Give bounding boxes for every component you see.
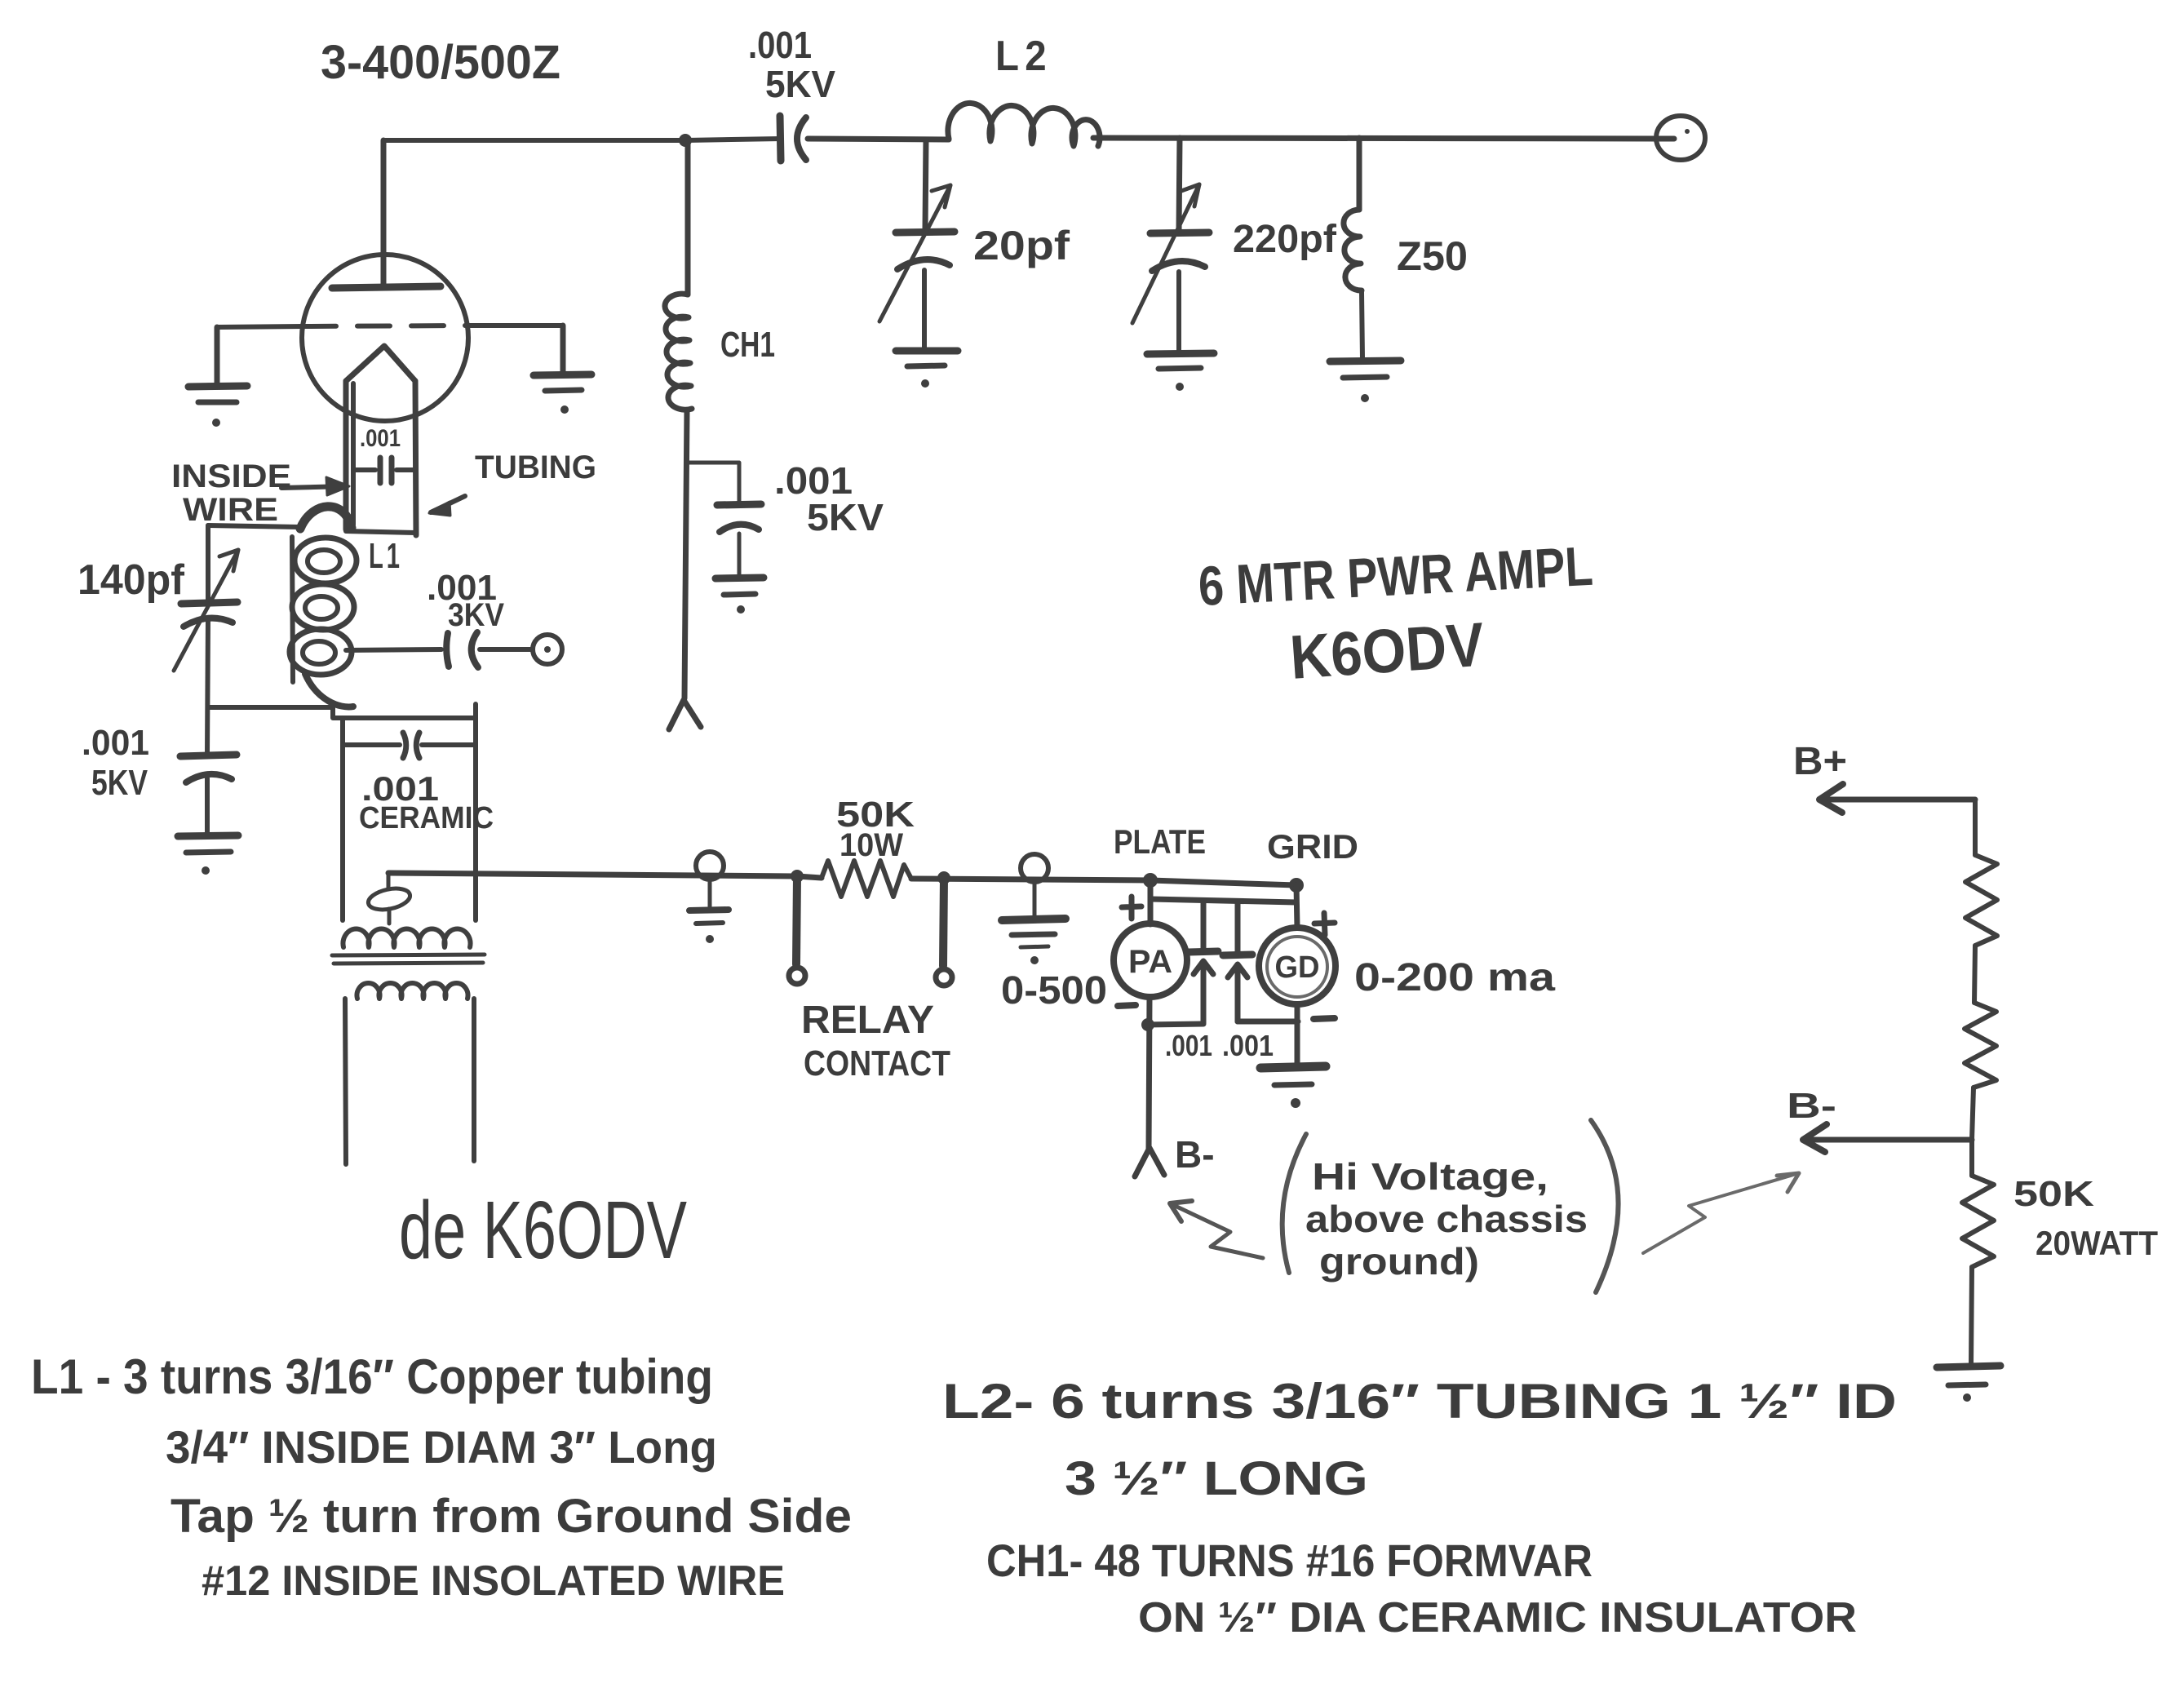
svg-text:de K6ODV: de K6ODV: [399, 1185, 687, 1276]
ceramic feedthrough box right wall: [473, 704, 478, 920]
wire L1 tap out: [346, 649, 441, 650]
wire bleeder mid1: [1974, 946, 1975, 1003]
svg-text:Tap ½ turn from Ground Side: Tap ½ turn from Ground Side: [171, 1490, 852, 1543]
capacitor .001 5KV (CH1 bypass): [717, 504, 761, 505]
cathode tubing outer walls: [343, 381, 349, 529]
wire bleeder top: [1973, 800, 1978, 855]
wire cap to L2: [808, 139, 949, 140]
svg-text:.001: .001: [1165, 1029, 1212, 1062]
wire B+ arrow: [1819, 797, 1975, 803]
wire bleeder mid2: [1972, 1088, 1974, 1140]
svg-text:CH1- 48 TURNS #16 FORMVAR: CH1- 48 TURNS #16 FORMVAR: [986, 1535, 1593, 1586]
tube cathode V: [346, 346, 415, 381]
arrow zigzag to B- fork: [1170, 1203, 1263, 1258]
arrow tubing label: [431, 496, 465, 512]
inductor L1 loop2: [292, 584, 354, 630]
wire primary lead right: [472, 999, 476, 1161]
choke CH1: [665, 294, 692, 410]
svg-text:GD: GD: [1275, 950, 1320, 985]
wire 220pf drop: [1179, 138, 1180, 231]
paren close (hi voltage note): [1591, 1120, 1619, 1292]
wire hook into L1 top: [300, 507, 352, 529]
relay contact left: [791, 870, 804, 883]
wire B- arrow: [1803, 1137, 1972, 1143]
tube grid dashed line: [217, 326, 303, 327]
ground GD: [1260, 1066, 1326, 1068]
wire Z50 drop: [1357, 138, 1362, 210]
node PLATE junction: [1143, 873, 1158, 888]
wire CH1 down to connector: [684, 410, 687, 698]
wire bleeder bottom: [1971, 1267, 1972, 1365]
svg-text:140pf: 140pf: [78, 556, 185, 604]
svg-text:GRID: GRID: [1267, 827, 1358, 866]
capacitor .001 (PA bypass): [1201, 901, 1207, 950]
resistor bleeder R1: [1965, 855, 1997, 946]
resistor 50K 20WATT: [1962, 1176, 1994, 1267]
wire plate lead: [381, 140, 387, 287]
transformer primary winding: [357, 983, 468, 999]
transformer secondary winding: [343, 929, 471, 947]
capacitor .001 (GD bypass): [1235, 902, 1241, 954]
ground feedthrough 2: [1002, 919, 1065, 920]
wire primary lead left: [345, 999, 346, 1164]
wire meter bypass top rail: [1151, 899, 1296, 902]
svg-text:L1 - 3 turns 3/16″ Copper tubi: L1 - 3 turns 3/16″ Copper tubing: [31, 1349, 713, 1404]
tube plate bar: [332, 286, 441, 288]
node GRID junction: [1289, 878, 1304, 893]
ground 140pf branch: [178, 835, 238, 836]
wire tap horizontal: [208, 525, 300, 527]
svg-text:K6ODV: K6ODV: [1288, 610, 1487, 693]
wire grid right down: [560, 326, 566, 374]
capacitor .001 inside tubing: [356, 467, 375, 472]
ground bleeder: [1937, 1366, 2000, 1367]
svg-text:.001: .001: [748, 24, 812, 66]
svg-text:CONTACT: CONTACT: [804, 1043, 950, 1083]
svg-text:.001: .001: [82, 723, 149, 763]
wire plate top horizontal: [383, 139, 781, 140]
node junction at CH1 top: [679, 134, 692, 147]
svg-text:B-: B-: [1787, 1086, 1836, 1126]
svg-text:L2: L2: [995, 33, 1052, 80]
svg-text:10W: 10W: [839, 827, 903, 863]
svg-text:0-500: 0-500: [1001, 969, 1107, 1012]
ground right of tube: [534, 374, 591, 375]
cathode inside wire: [351, 383, 356, 525]
ceramic feedthrough box left wall: [340, 718, 345, 920]
svg-text:220pf: 220pf: [1233, 218, 1337, 261]
arrow 20pf: [879, 185, 950, 321]
svg-text:RELAY: RELAY: [801, 999, 934, 1042]
svg-text:TUBING: TUBING: [475, 450, 596, 485]
ground feedthrough 1: [689, 910, 729, 910]
svg-text:3KV: 3KV: [448, 597, 504, 633]
arrow zigzag to bleeder B-: [1643, 1173, 1799, 1253]
arrow 140pf: [174, 550, 238, 671]
svg-text:5KV: 5KV: [91, 763, 148, 803]
capacitor 20pf variable: [896, 232, 955, 233]
feedthrough insulator 2: [1021, 854, 1048, 882]
svg-text:3-400/500Z: 3-400/500Z: [321, 36, 560, 89]
svg-text:50K: 50K: [2013, 1174, 2094, 1214]
relay contact right: [937, 871, 950, 884]
polarity marks PA: [1122, 897, 1141, 919]
arrow inside-wire label: [281, 486, 347, 488]
wire L1 bottom curve: [305, 674, 353, 707]
svg-text:.001: .001: [1222, 1029, 1274, 1062]
polarity marks GD: [1314, 913, 1335, 935]
tube V1 3-400/500Z envelope: [302, 255, 468, 421]
wire lower horizontal to ceramic box: [208, 707, 476, 718]
svg-text:L2- 6 turns 3/16″ TUBING 1 ½″: L2- 6 turns 3/16″ TUBING 1 ½″ ID: [942, 1374, 1897, 1429]
ground CH1 bypass: [715, 578, 764, 578]
svg-text:ON ½″ DIA CERAMIC INSULATOR: ON ½″ DIA CERAMIC INSULATOR: [1138, 1594, 1857, 1641]
ground Z50: [1330, 361, 1401, 361]
svg-text:20pf: 20pf: [973, 223, 1070, 268]
svg-text:L1: L1: [369, 536, 403, 576]
wire grid meter lead: [1296, 885, 1297, 928]
svg-text:Z50: Z50: [1397, 233, 1468, 279]
svg-text:#12 INSIDE INSOLATED WIRE: #12 INSIDE INSOLATED WIRE: [202, 1557, 785, 1605]
ground 20pf: [896, 348, 958, 355]
wire relay main horizontal: [388, 873, 1296, 885]
wire jog to bypass cap: [688, 463, 739, 502]
svg-text:ground): ground): [1319, 1240, 1479, 1283]
svg-text:WIRE: WIRE: [183, 492, 278, 528]
wire L2 to output: [1093, 138, 1674, 139]
paren open (hi voltage note): [1282, 1134, 1306, 1273]
capacitor .001 5KV (plate blocking): [780, 116, 781, 161]
wire grid left down: [215, 327, 220, 385]
svg-text:20WATT: 20WATT: [2036, 1224, 2158, 1262]
resistor bleeder R2: [1965, 1003, 1996, 1088]
wire to terminal: [480, 647, 532, 652]
connector fork B-: [1135, 1148, 1164, 1176]
inductor Z50: [1344, 210, 1362, 290]
svg-text:Hi Voltage,: Hi Voltage,: [1312, 1155, 1548, 1198]
svg-text:5KV: 5KV: [765, 63, 835, 105]
wire 20pf drop: [925, 140, 926, 230]
svg-text:B+: B+: [1793, 740, 1847, 783]
svg-text:3/4″ INSIDE DIAM 3″ Long: 3/4″ INSIDE DIAM 3″ Long: [166, 1421, 717, 1473]
wire plate meter lead: [1148, 880, 1154, 924]
capacitor .001 5KV (left): [180, 755, 237, 756]
svg-text:.001: .001: [360, 425, 401, 452]
ground left of tube: [188, 386, 247, 387]
wire PA bottom: [1149, 997, 1150, 1150]
svg-text:5KV: 5KV: [807, 496, 884, 538]
svg-text:INSIDE: INSIDE: [171, 459, 291, 494]
wire 140pf vertical: [207, 525, 208, 834]
feedthrough insulator 1: [696, 852, 724, 879]
output terminal circle: [1656, 116, 1705, 160]
meter PA 0-500: [1114, 924, 1187, 997]
meter GD 0-200ma: [1259, 928, 1336, 1004]
terminal circle (driver input): [533, 635, 562, 664]
svg-text:PA: PA: [1128, 944, 1172, 980]
svg-text:B-: B-: [1175, 1133, 1215, 1176]
capacitor 140pf variable: [181, 602, 237, 604]
inductor L1 loop1: [295, 538, 357, 583]
svg-text:CERAMIC: CERAMIC: [359, 801, 494, 835]
wire bleeder mid3: [1969, 1140, 1974, 1176]
svg-text:PLATE: PLATE: [1114, 822, 1206, 861]
ground 220pf: [1147, 353, 1214, 354]
wire CH1 drop: [685, 140, 691, 295]
arrow 220pf: [1132, 184, 1199, 323]
wire GD bottom: [1295, 1004, 1300, 1065]
svg-text:CH1: CH1: [720, 325, 775, 365]
transformer connector loop: [387, 873, 391, 889]
connector fork CH1 bottom: [669, 700, 701, 729]
inductor L2: [948, 103, 1100, 146]
resistor 50K 10W: [822, 861, 911, 897]
wire L1 left guide: [292, 537, 293, 682]
transformer core: [332, 955, 485, 955]
capacitor .001 ceramic: [343, 742, 400, 747]
svg-text:0-200 ma: 0-200 ma: [1354, 956, 1555, 999]
inductor L1 loop3: [290, 629, 352, 675]
capacitor .001 3KV: [446, 633, 449, 667]
svg-text:3 ½″ LONG: 3 ½″ LONG: [1065, 1452, 1368, 1505]
svg-text:above chassis: above chassis: [1305, 1198, 1588, 1240]
capacitor 220pf variable: [1150, 233, 1209, 233]
